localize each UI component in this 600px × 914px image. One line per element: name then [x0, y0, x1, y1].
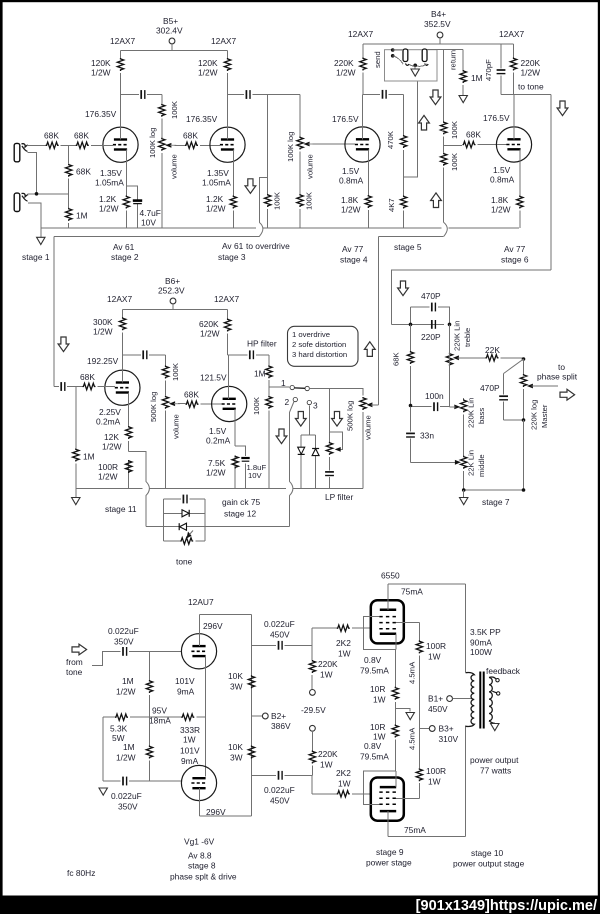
resistor R 470K send: [386, 94, 407, 177]
svg-text:stage 6: stage 6: [501, 255, 529, 265]
svg-text:to overdrive: to overdrive: [246, 241, 290, 251]
svg-text:1/2W: 1/2W: [91, 68, 111, 78]
svg-text:tone: tone: [66, 667, 83, 677]
svg-text:100K log: 100K log: [148, 128, 157, 158]
svg-text:12AX7: 12AX7: [499, 29, 524, 39]
switch pole: [295, 386, 310, 390]
wire B6+ stub and rail: [123, 304, 228, 310]
potentiometer 22K Lin middle: [461, 450, 487, 490]
wire jack1 sleeve down to jack2 line: [27, 152, 36, 194]
resistor R 68K stage11 grid: [76, 372, 115, 390]
resistor R 333R 1W: [142, 706, 206, 745]
svg-text:0.8V: 0.8V: [364, 655, 382, 665]
capacitor C 4.7uF 10V: [126, 186, 161, 228]
svg-text:1M: 1M: [83, 452, 95, 462]
diode D2: [312, 435, 319, 489]
capacitor C LP: [325, 457, 334, 489]
svg-text:B4+: B4+: [431, 9, 446, 19]
resistor R 100R 1/2W: [98, 460, 132, 482]
svg-text:B2+: B2+: [271, 711, 286, 721]
capacitor C 33n: [406, 407, 456, 463]
svg-text:-29.5V: -29.5V: [301, 705, 326, 715]
resistor R 2K2 1W upper: [336, 625, 371, 659]
diode D1: [298, 435, 316, 489]
svg-text:620K: 620K: [199, 319, 219, 329]
svg-text:352.5V: 352.5V: [424, 19, 451, 29]
svg-text:1.5V: 1.5V: [209, 426, 227, 436]
svg-text:9mA: 9mA: [181, 756, 199, 766]
wire B5+ stub: [171, 44, 173, 51]
svg-text:0.022uF: 0.022uF: [108, 626, 139, 636]
wire 5.3K left drop: [102, 717, 104, 781]
svg-text:to: to: [558, 362, 565, 372]
potentiometer 500K log (od volume): [346, 397, 373, 489]
svg-text:2.25V: 2.25V: [99, 407, 121, 417]
wire T8 plate to rail: [200, 788, 252, 816]
potentiometer 220K Lin bass: [461, 398, 487, 456]
node B5+ terminal: [156, 16, 183, 44]
wire cathode mid node + ground: [395, 702, 414, 725]
svg-text:220P: 220P: [421, 332, 441, 342]
wire return to divider: [427, 49, 463, 51]
svg-text:stage 10: stage 10: [471, 848, 503, 858]
wiper treble to 22K: [453, 355, 486, 360]
potentiometer tone: [163, 531, 205, 567]
resistor R 220K 1/2W stage4 plate: [334, 44, 366, 94]
svg-text:volume: volume: [364, 415, 373, 440]
wire T6 cathode: [235, 409, 245, 489]
svg-text:68K: 68K: [76, 167, 91, 177]
svg-text:300K: 300K: [93, 317, 113, 327]
resistor R 22K: [485, 345, 524, 361]
resistor R 68K input a: [44, 131, 59, 149]
svg-text:1/2W: 1/2W: [198, 68, 218, 78]
svg-text:power stage: power stage: [366, 858, 412, 868]
svg-text:volume: volume: [170, 154, 179, 179]
wire send node to jack: [404, 81, 418, 177]
svg-text:B3+: B3+: [439, 724, 454, 734]
resistor R 12K 1/2W: [102, 426, 132, 452]
wire B2+ rail: [251, 615, 253, 816]
ground secondary: [489, 721, 499, 731]
svg-text:220K Lin: 220K Lin: [467, 398, 476, 428]
svg-text:stage 7: stage 7: [482, 497, 510, 507]
tube U8 12AU7 lower: [181, 765, 226, 817]
svg-text:470pF: 470pF: [484, 59, 493, 81]
diode D4 tone: [179, 523, 186, 530]
svg-text:1W: 1W: [338, 649, 351, 659]
svg-text:Vg1 -6V: Vg1 -6V: [184, 837, 215, 847]
svg-text:1/2W: 1/2W: [341, 205, 361, 215]
input jack J2: [14, 193, 27, 211]
svg-text:1.2K: 1.2K: [99, 194, 117, 204]
svg-text:0.2mA: 0.2mA: [206, 436, 231, 446]
text 0.8V 79.5mA upper: [360, 655, 389, 676]
wiper master out: [527, 362, 578, 388]
resistor R 220K 1W lower: [309, 731, 338, 775]
wire T5 cathode: [128, 393, 130, 489]
arrow up switch: [364, 342, 375, 357]
svg-text:120K: 120K: [91, 58, 111, 68]
node dots 470P: [409, 323, 452, 327]
node stage7 dots: [462, 488, 525, 492]
transformer OT primary: [466, 673, 475, 727]
resistor R 100K HP: [252, 396, 272, 489]
svg-text:0.022uF: 0.022uF: [111, 791, 142, 801]
resistor R 1.2K stage3 cathode: [206, 194, 237, 214]
capacitor C3 send coupling: [363, 90, 404, 99]
svg-text:stage 11: stage 11: [105, 504, 137, 514]
wire jack1 tip: [28, 144, 46, 146]
node master top dot: [522, 357, 526, 361]
wire T6 plate lead: [228, 355, 230, 399]
resistor R 220K 1/2W stage6 plate: [510, 44, 540, 94]
resistor R 10K 3W lower: [228, 742, 255, 763]
svg-text:1.5V: 1.5V: [493, 165, 511, 175]
svg-text:100K: 100K: [171, 362, 180, 381]
svg-text:1/2W: 1/2W: [206, 204, 226, 214]
svg-text:phase splt & drive: phase splt & drive: [170, 872, 237, 882]
tube U5 12AX7 stage11: [87, 294, 140, 405]
svg-text:2K2: 2K2: [336, 768, 351, 778]
svg-text:121.5V: 121.5V: [200, 373, 227, 383]
svg-text:return: return: [449, 50, 458, 70]
wire T3 cathode: [367, 149, 369, 228]
svg-text:0.022uF: 0.022uF: [264, 785, 295, 795]
svg-text:1.8K: 1.8K: [491, 195, 509, 205]
switch contact 3: [307, 400, 318, 435]
svg-text:1W: 1W: [428, 652, 441, 662]
svg-text:176.5V: 176.5V: [332, 114, 359, 124]
svg-text:75mA: 75mA: [401, 587, 423, 597]
resistor R 1M 1/2W upper: [116, 651, 153, 717]
svg-text:68K: 68K: [466, 130, 481, 140]
svg-text:100K: 100K: [170, 100, 179, 119]
svg-text:1.35V: 1.35V: [207, 168, 229, 178]
svg-text:0.8mA: 0.8mA: [339, 176, 364, 186]
text 101V 9mA upper: [175, 676, 195, 697]
wire hop over bus: [259, 222, 263, 236]
svg-text:stage 9: stage 9: [376, 847, 404, 857]
svg-text:100W: 100W: [470, 647, 492, 657]
wire B5+ rail: [121, 50, 228, 52]
resistor R 68K stage6 grid: [463, 130, 507, 148]
resistor R 100K divider lower: [441, 152, 460, 222]
svg-text:to tone: to tone: [518, 82, 544, 92]
potentiometer 100K log volume (stage4): [286, 95, 315, 229]
svg-text:1M: 1M: [471, 73, 483, 83]
svg-text:450V: 450V: [270, 796, 290, 806]
resistor R 5.3K 5W: [103, 714, 142, 743]
svg-text:1/2W: 1/2W: [200, 329, 220, 339]
resistor R 68K grid stage3: [183, 131, 220, 149]
arrow down to tone: [557, 101, 568, 116]
capacitor C2 coupling stage3: [228, 90, 301, 99]
resistor R 220K 1W upper: [309, 645, 338, 689]
svg-text:100K: 100K: [273, 191, 282, 210]
wire pole output: [310, 388, 363, 442]
resistor R 300K 1/2W: [93, 310, 126, 355]
trimmer gain: [326, 432, 342, 455]
wire cathode link T7-T8: [205, 656, 207, 776]
resistor R 100R 1W upper: [416, 640, 446, 661]
svg-text:middle: middle: [477, 454, 486, 477]
svg-text:1.05mA: 1.05mA: [202, 178, 231, 188]
svg-text:phase split: phase split: [537, 372, 578, 382]
svg-text:1W: 1W: [428, 777, 441, 787]
svg-text:12AX7: 12AX7: [214, 294, 239, 304]
svg-text:send: send: [373, 51, 382, 68]
svg-text:3 hard distortion: 3 hard distortion: [292, 350, 347, 359]
svg-text:12K: 12K: [104, 432, 119, 442]
wire od feed drop: [378, 237, 380, 405]
svg-text:120K: 120K: [198, 58, 218, 68]
ground stage1: [22, 228, 50, 262]
wire ground bus top section: [41, 227, 519, 229]
wire T7 plate to rail: [200, 615, 252, 647]
svg-text:68K: 68K: [44, 131, 59, 141]
resistor R 1.8K stage4 cathode: [341, 195, 371, 215]
wire wiper to 68K stage12: [178, 403, 185, 405]
svg-text:LP filter: LP filter: [325, 492, 353, 502]
svg-text:95V: 95V: [152, 706, 167, 716]
svg-text:1W: 1W: [373, 732, 386, 742]
svg-text:gain ck 75: gain ck 75: [222, 497, 261, 507]
wire jack2 sleeve to ground bus: [28, 203, 41, 228]
svg-text:22K: 22K: [485, 345, 500, 355]
capacitor C 1.8uF 10V: [241, 458, 266, 480]
wire overdrive input drop: [53, 237, 55, 387]
svg-text:77 watts: 77 watts: [480, 766, 511, 776]
svg-text:220K log: 220K log: [530, 400, 539, 430]
svg-text:volume: volume: [172, 414, 181, 439]
wire hop fb over bus: [146, 481, 150, 495]
svg-text:3.5K PP: 3.5K PP: [470, 627, 501, 637]
svg-text:1/2W: 1/2W: [102, 442, 122, 452]
svg-text:12AX7: 12AX7: [348, 29, 373, 39]
wire T4 plate node to tone: [501, 94, 551, 269]
tube U1 12AX7 stage2: [85, 36, 138, 162]
wire cathode upper: [394, 634, 397, 687]
text stage12 voltages: [206, 426, 231, 446]
switch select box: [288, 326, 359, 366]
svg-text:1.5V: 1.5V: [342, 166, 360, 176]
svg-text:0.8mA: 0.8mA: [490, 175, 515, 185]
svg-text:1/2W: 1/2W: [521, 68, 541, 78]
wire from tone entry: [92, 651, 121, 665]
svg-text:101V: 101V: [180, 746, 200, 756]
wire wiper to 68K: [175, 144, 186, 146]
svg-text:500K log: 500K log: [149, 392, 158, 422]
svg-text:12AX7: 12AX7: [211, 36, 236, 46]
node B2+ terminal: [252, 711, 291, 731]
svg-text:68K: 68K: [80, 372, 95, 382]
potentiometer 100K log volume (stage2): [148, 128, 179, 229]
tube U7 12AU7 upper: [181, 597, 223, 669]
svg-text:2: 2: [285, 397, 290, 407]
arrow right from tone: [72, 644, 87, 655]
svg-text:386V: 386V: [271, 721, 291, 731]
svg-text:1.2K: 1.2K: [206, 194, 224, 204]
svg-text:stage 4: stage 4: [340, 255, 368, 265]
transformer core: [480, 672, 483, 729]
wire T3 plate lead: [362, 94, 364, 139]
svg-text:500K log: 500K log: [346, 401, 355, 431]
svg-text:Master: Master: [540, 404, 549, 428]
wire pot2 wiper to T3 grid: [313, 143, 356, 145]
svg-text:Av 8.8: Av 8.8: [188, 851, 212, 861]
svg-text:100K: 100K: [252, 396, 261, 415]
text stage4 label: [340, 244, 368, 265]
resistor R 1M return: [449, 50, 483, 103]
svg-text:6550: 6550: [381, 571, 400, 581]
resistor R 10R 1W lower: [370, 722, 398, 771]
svg-text:220K: 220K: [318, 659, 338, 669]
svg-text:296V: 296V: [203, 621, 223, 631]
resistor R 4K7: [387, 177, 407, 228]
wiper middle: [455, 460, 461, 465]
svg-text:0.8V: 0.8V: [364, 741, 382, 751]
resistor R 68K input b: [74, 131, 113, 149]
svg-text:350V: 350V: [114, 637, 134, 647]
wire node to switch contact1: [269, 386, 290, 388]
svg-text:stage 1: stage 1: [22, 252, 50, 262]
svg-text:1.05mA: 1.05mA: [95, 178, 124, 188]
svg-text:B1+: B1+: [428, 694, 443, 704]
svg-text:stage 2: stage 2: [111, 252, 139, 262]
resistor R 68K stage12 grid: [184, 390, 222, 408]
switch contact 1: [281, 378, 294, 390]
svg-text:220K: 220K: [318, 749, 338, 759]
wire T2 plate lead: [227, 95, 229, 140]
arrow down tone in: [398, 281, 409, 296]
svg-text:B5+: B5+: [163, 16, 178, 26]
wire beam tie upper: [363, 617, 396, 650]
wire T2 cathode lead: [232, 150, 234, 229]
resistor R 100K (stage2 load): [159, 95, 179, 138]
wire feedback line: [146, 526, 290, 528]
wire T1 plate lead: [120, 95, 122, 140]
arrows LP area: [276, 412, 342, 444]
svg-text:2 sofe distortion: 2 sofe distortion: [292, 340, 346, 349]
svg-text:HP filter: HP filter: [247, 339, 277, 349]
arrow up stage5: [431, 193, 442, 208]
svg-text:4.5mA: 4.5mA: [408, 661, 417, 684]
wire B4+ stub and rail: [363, 38, 514, 44]
potentiometer 220K log Master: [520, 359, 549, 430]
node B4+ terminal: [424, 9, 451, 38]
resistor R 100R 1W lower: [416, 766, 446, 787]
resistor R 100K divider upper: [441, 50, 460, 153]
wire hop c2 over bus: [289, 481, 293, 495]
svg-text:100R: 100R: [426, 766, 446, 776]
svg-text:90mA: 90mA: [470, 638, 492, 648]
ground stage7: [460, 490, 510, 507]
resistor R 1M input: [66, 194, 88, 228]
node B3+ terminal: [419, 724, 458, 745]
tube V1 6550 upper: [371, 600, 404, 643]
tube U3 12AX7 stage4: [332, 29, 380, 162]
svg-text:176.5V: 176.5V: [483, 113, 510, 123]
resistor R 120K 1/2W (stage3 plate): [198, 51, 231, 95]
wire to tone routing: [392, 270, 552, 325]
svg-text:1/2W: 1/2W: [98, 472, 118, 482]
resistor R 100K below pot2: [297, 191, 314, 210]
node junction dot: [35, 192, 39, 196]
tube U4 12AX7 stage6: [483, 29, 532, 162]
resistor R 620K 1/2W: [199, 310, 231, 355]
svg-text:68K: 68K: [184, 390, 199, 400]
svg-text:1M: 1M: [254, 369, 266, 379]
svg-text:1/2W: 1/2W: [116, 753, 136, 763]
capacitor C coupling stage11 plate: [123, 350, 166, 359]
wire divider mid to 68K: [444, 144, 463, 146]
text stage labels bottom: [366, 847, 525, 869]
wire divider hop to lower line: [444, 222, 448, 236]
text stage6 labels: [490, 165, 529, 265]
wire cathode lower: [395, 771, 397, 787]
resistor R 1.2K stage2 cathode: [99, 194, 130, 214]
svg-text:1: 1: [281, 378, 286, 388]
wire to overdrive line: [54, 236, 259, 238]
svg-text:3W: 3W: [230, 753, 243, 763]
svg-text:1W: 1W: [338, 779, 351, 789]
capacitor C stage11 input: [54, 382, 76, 391]
svg-text:100K: 100K: [450, 152, 459, 171]
svg-text:stage 12: stage 12: [224, 509, 256, 519]
svg-text:1/2W: 1/2W: [336, 68, 356, 78]
svg-text:2K2: 2K2: [336, 638, 351, 648]
svg-text:4.7uF: 4.7uF: [140, 208, 161, 218]
potentiometer 500K log volume stage11: [149, 392, 181, 489]
svg-text:75mA: 75mA: [404, 825, 426, 835]
node B6+ terminal: [158, 276, 185, 304]
tube V2 6550 lower: [371, 778, 404, 821]
svg-text:176.35V: 176.35V: [85, 109, 117, 119]
wire screen lower: [396, 797, 419, 799]
capacitor C 0.022uF 350V lower: [103, 777, 181, 786]
capacitor C 100n: [411, 324, 450, 411]
capacitor C 470pF: [484, 44, 505, 94]
svg-text:Av 61: Av 61: [113, 242, 135, 252]
text gain ck stage12: [222, 497, 261, 519]
svg-text:100K: 100K: [450, 120, 459, 139]
svg-text:12AU7: 12AU7: [188, 597, 214, 607]
resistor R 100K (to overdrive tap load): [265, 95, 282, 229]
jack send: [403, 49, 409, 65]
svg-text:volume: volume: [306, 154, 315, 179]
wire HP filter line: [228, 354, 269, 356]
text stage2 labels: [95, 168, 139, 262]
arrow right phase split: [560, 389, 575, 400]
capacitor C1 coupling stage2: [121, 90, 162, 99]
feedback tap circles: [486, 666, 521, 695]
svg-text:1M: 1M: [122, 676, 134, 686]
capacitor C tone top: [163, 495, 205, 504]
svg-text:9mA: 9mA: [177, 687, 195, 697]
svg-text:10K: 10K: [228, 671, 243, 681]
switch contact 2: [285, 397, 298, 481]
svg-text:1/2W: 1/2W: [206, 468, 226, 478]
svg-text:68K: 68K: [74, 131, 89, 141]
svg-text:12AX7: 12AX7: [110, 36, 135, 46]
send/return loop box: [373, 50, 437, 81]
svg-text:4K7: 4K7: [387, 198, 396, 212]
tube U6 12AX7 stage12: [200, 294, 247, 422]
wire plate lead lower: [388, 811, 466, 837]
capacitor C 0.022uF 350V upper: [108, 626, 182, 656]
svg-text:101V: 101V: [175, 676, 195, 686]
